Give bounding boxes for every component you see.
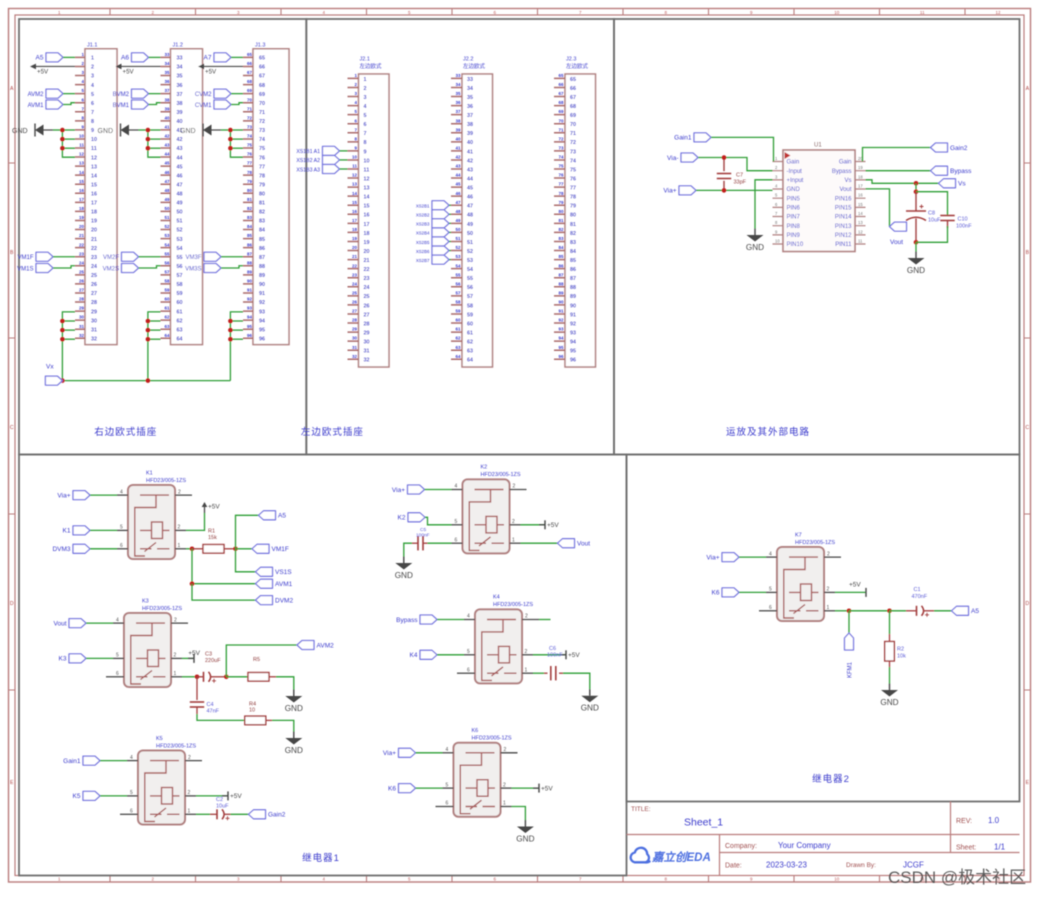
svg-text:6: 6 — [467, 667, 470, 673]
bottom pins junction wires — [146, 312, 161, 381]
net flag Via+ — [57, 491, 117, 500]
svg-text:4: 4 — [120, 489, 123, 495]
svg-text:+5V: +5V — [547, 522, 559, 529]
svg-text:Vout: Vout — [890, 239, 903, 246]
svg-text:VM1S: VM1S — [17, 266, 33, 272]
net flag CVM1 — [195, 100, 243, 109]
svg-text:Gain1: Gain1 — [674, 135, 692, 142]
svg-text:47nF: 47nF — [207, 709, 220, 715]
svg-text:C4: C4 — [207, 702, 214, 708]
svg-text:XS1B3 A3: XS1B3 A3 — [296, 167, 320, 173]
power +5V K6 — [512, 784, 554, 793]
svg-text:2: 2 — [827, 587, 830, 593]
svg-text:R5: R5 — [253, 657, 260, 663]
svg-text:2: 2 — [174, 653, 177, 659]
svg-text:2: 2 — [525, 614, 528, 620]
svg-text:6: 6 — [769, 605, 772, 611]
svg-text:+5V: +5V — [230, 793, 242, 800]
net flag Via+ — [392, 485, 452, 494]
svg-text:BVM1: BVM1 — [113, 103, 130, 109]
svg-text:GND: GND — [98, 128, 114, 135]
svg-text:11: 11 — [920, 10, 925, 15]
svg-text:GND: GND — [746, 243, 764, 252]
bottom pins junction wires — [228, 312, 243, 381]
svg-text:10k: 10k — [897, 654, 906, 660]
relay K3 — [106, 598, 188, 687]
wire pin1 K6 to GND — [512, 807, 526, 821]
capacitor C5 — [404, 527, 452, 557]
power +5V K1 — [186, 502, 220, 530]
connector J2.1 — [348, 57, 390, 368]
svg-text:B: B — [10, 250, 14, 256]
net flag Gain1 — [674, 133, 773, 162]
power +5V K4 — [533, 650, 580, 659]
svg-text:C2: C2 — [216, 797, 223, 803]
net flag XS2B2 — [416, 210, 451, 219]
svg-text:+5V: +5V — [541, 785, 553, 792]
net flag XS2B1 — [416, 201, 451, 210]
svg-text:1.0: 1.0 — [988, 816, 1000, 825]
net flag AVM2 — [28, 89, 75, 98]
svg-text:C10: C10 — [958, 217, 968, 223]
svg-text:10: 10 — [834, 877, 840, 882]
net flag Gain2 — [863, 143, 968, 162]
svg-text:A7: A7 — [204, 55, 212, 62]
capacitor C6 — [533, 646, 590, 689]
svg-text:1/1: 1/1 — [994, 843, 1006, 852]
svg-text:HFD23/005-1ZS: HFD23/005-1ZS — [146, 478, 186, 484]
net flag XS2B3 — [416, 219, 451, 228]
ground GND op-amp right — [907, 252, 925, 276]
svg-text:XS2B5: XS2B5 — [416, 240, 430, 245]
svg-text:Bypass: Bypass — [396, 617, 418, 624]
svg-text:4: 4 — [446, 747, 449, 753]
net flag K4 — [410, 650, 464, 659]
svg-text:Company:: Company: — [725, 843, 757, 850]
svg-text:GND: GND — [880, 698, 898, 707]
GND diode — [98, 124, 148, 137]
title block — [627, 802, 1020, 876]
svg-text:A6: A6 — [121, 55, 129, 62]
net flag XS2B6 — [416, 246, 451, 255]
connector J1.3 — [243, 42, 289, 344]
net flag Vout — [53, 619, 113, 628]
resistor R4 — [197, 702, 294, 732]
svg-text:Date:: Date: — [725, 863, 742, 870]
svg-text:2023-03-23: 2023-03-23 — [766, 861, 807, 870]
svg-text:6: 6 — [116, 671, 119, 677]
svg-text:5: 5 — [467, 649, 470, 655]
frame zone letters — [10, 86, 1030, 786]
svg-text:1: 1 — [188, 809, 191, 815]
net flag K6 — [712, 588, 766, 597]
section box: op-amp circuit — [614, 19, 1020, 455]
svg-text:2: 2 — [188, 755, 191, 761]
wire jog to +Input — [755, 180, 773, 191]
svg-text:4: 4 — [130, 755, 133, 761]
net flag XS1B1 — [296, 146, 347, 155]
net flag DVM3 — [52, 544, 117, 553]
svg-text:R2: R2 — [897, 647, 904, 653]
svg-text:470nF: 470nF — [912, 594, 928, 600]
svg-text:J2.3: J2.3 — [566, 57, 576, 63]
svg-text:GND: GND — [285, 704, 303, 713]
svg-text:5: 5 — [116, 653, 119, 659]
section box: right euro sockets — [19, 19, 306, 455]
svg-text:左边欧式: 左边欧式 — [360, 62, 383, 70]
svg-text:Bypass: Bypass — [950, 168, 972, 175]
svg-text:CVM2: CVM2 — [195, 92, 212, 98]
svg-text:2: 2 — [827, 551, 830, 557]
svg-text:5: 5 — [446, 782, 449, 788]
capacitor C1 — [906, 587, 934, 617]
svg-text:AVM2: AVM2 — [28, 92, 45, 98]
svg-text:Via+: Via+ — [706, 554, 719, 561]
net flag K5 — [73, 791, 127, 800]
net flag VM3S — [185, 264, 243, 273]
net flag Via+ — [663, 186, 772, 195]
svg-text:Vout: Vout — [53, 620, 66, 627]
svg-text:Via+: Via+ — [383, 750, 396, 757]
svg-text:HFD23/005-1ZS: HFD23/005-1ZS — [156, 743, 196, 749]
net flag XS1B3 — [296, 165, 347, 174]
svg-text:+5V: +5V — [205, 68, 217, 75]
net flag BVM1 — [113, 100, 161, 109]
svg-text:A5: A5 — [36, 55, 44, 62]
svg-text:5: 5 — [130, 790, 133, 796]
svg-text:E: E — [10, 780, 14, 786]
power +5V flag — [30, 64, 75, 76]
svg-text:Drawn By:: Drawn By: — [846, 862, 876, 869]
svg-text:HFD23/005-1ZS: HFD23/005-1ZS — [472, 736, 512, 742]
svg-text:C8: C8 — [928, 211, 935, 217]
power +5V flag — [198, 64, 243, 76]
svg-text:嘉立创EDA: 嘉立创EDA — [651, 850, 711, 864]
svg-text:2: 2 — [178, 525, 181, 531]
svg-text:Via+: Via+ — [57, 492, 70, 499]
capacitor C2 — [196, 797, 231, 820]
svg-text:HFD23/005-1ZS: HFD23/005-1ZS — [493, 602, 533, 608]
svg-text:左边欧式插座: 左边欧式插座 — [301, 426, 364, 438]
svg-text:E: E — [1026, 780, 1030, 786]
svg-text:+5V: +5V — [37, 68, 49, 75]
svg-text:Gain2: Gain2 — [950, 145, 968, 152]
svg-text:12: 12 — [995, 10, 1001, 15]
svg-text:XS2B6: XS2B6 — [416, 249, 430, 254]
svg-text:GND: GND — [907, 266, 925, 275]
svg-text:C6: C6 — [549, 646, 556, 652]
svg-text:A: A — [10, 86, 14, 92]
svg-text:AVM1: AVM1 — [275, 581, 293, 588]
wire stub pin2 K4 — [539, 619, 551, 621]
wire to GND — [915, 242, 917, 251]
net flag VM2S — [103, 264, 161, 273]
svg-text:XS1B1 A1: XS1B1 A1 — [296, 149, 320, 155]
svg-text:VM1F: VM1F — [17, 255, 33, 261]
GND diode — [12, 124, 62, 137]
resistor R1 — [186, 529, 238, 554]
net flag AVM2 — [226, 641, 334, 677]
svg-text:DVM3: DVM3 — [52, 546, 70, 553]
net flag VM1F — [236, 544, 289, 553]
svg-text:Via+: Via+ — [663, 188, 676, 195]
svg-text:4: 4 — [769, 551, 772, 557]
svg-text:2: 2 — [513, 484, 516, 490]
svg-text:HFD23/005-1ZS: HFD23/005-1ZS — [795, 540, 835, 546]
op-amp U1 — [773, 143, 866, 252]
svg-text:K6: K6 — [472, 728, 479, 734]
svg-text:10uF: 10uF — [216, 804, 229, 810]
connector J2.2 — [451, 57, 493, 368]
svg-text:K4: K4 — [493, 595, 500, 601]
svg-text:J1.1: J1.1 — [87, 42, 97, 48]
svg-text:VS1S: VS1S — [275, 569, 292, 576]
svg-text:继电器2: 继电器2 — [812, 773, 850, 785]
svg-text:B: B — [1026, 250, 1030, 256]
svg-text:+5V: +5V — [188, 650, 200, 657]
net flag A5 — [934, 606, 979, 615]
net flag Via+ — [706, 553, 766, 562]
svg-text:C: C — [1025, 425, 1029, 431]
ground GND R4 — [285, 732, 303, 756]
svg-text:K2: K2 — [481, 465, 488, 471]
svg-text:2: 2 — [174, 617, 177, 623]
relay K5 — [120, 736, 202, 825]
connector J1.1 — [75, 42, 117, 344]
svg-text:Sheet:: Sheet: — [956, 845, 976, 852]
svg-text:HFD23/005-1ZS: HFD23/005-1ZS — [481, 472, 521, 478]
svg-text:+5V: +5V — [849, 582, 861, 589]
relay K7 — [759, 532, 841, 621]
frame zone ticks (top/bottom) — [110, 9, 965, 883]
svg-text:C3: C3 — [205, 652, 212, 658]
svg-text:K3: K3 — [142, 598, 149, 604]
net flag A7 — [204, 53, 243, 62]
svg-text:33pF: 33pF — [734, 180, 747, 186]
svg-text:XS2B7: XS2B7 — [416, 258, 430, 263]
svg-text:VM3S: VM3S — [185, 266, 201, 272]
svg-text:XS2B4: XS2B4 — [416, 231, 430, 236]
svg-text:100nF: 100nF — [956, 224, 972, 230]
net flag BVM2 — [113, 89, 161, 98]
svg-text:6: 6 — [130, 809, 133, 815]
svg-text:J2.2: J2.2 — [463, 57, 473, 63]
resistor R5 — [226, 657, 293, 690]
svg-text:6: 6 — [446, 801, 449, 807]
net Vx bottom bus — [45, 364, 230, 386]
svg-text:KFM1: KFM1 — [848, 661, 854, 678]
net flag XS2B7 — [416, 255, 451, 264]
svg-text:6: 6 — [120, 543, 123, 549]
net flag A5 — [36, 53, 75, 62]
net flag Via+ — [383, 748, 443, 757]
svg-text:Gain2: Gain2 — [268, 812, 286, 819]
capacitor C3 — [182, 652, 229, 683]
net flag Gain2 — [231, 810, 286, 819]
net flag KFM1 vertical — [845, 611, 854, 678]
GND diode — [180, 124, 230, 137]
svg-text:D: D — [1025, 601, 1029, 607]
net flag Via- — [667, 153, 772, 171]
svg-text:K5: K5 — [73, 793, 81, 800]
JLCEDA logo — [631, 848, 711, 864]
svg-text:6: 6 — [455, 537, 458, 543]
power +5V K7 — [835, 582, 866, 597]
svg-text:C: C — [10, 425, 14, 431]
svg-text:GND: GND — [516, 835, 534, 844]
svg-text:5: 5 — [120, 525, 123, 531]
net flag VM1F — [17, 252, 75, 261]
net flag K1 — [63, 526, 117, 535]
net flag XS2B4 — [416, 228, 451, 237]
ground GND R5 — [285, 690, 303, 714]
svg-text:REV:: REV: — [956, 818, 972, 825]
svg-text:+5V: +5V — [568, 652, 580, 659]
svg-text:A: A — [1026, 86, 1030, 92]
net flag Bypass — [866, 166, 973, 175]
net flag CVM2 — [195, 89, 243, 98]
svg-text:VM3F: VM3F — [185, 255, 201, 261]
net flag A5 — [236, 511, 287, 549]
svg-text:左边欧式: 左边欧式 — [566, 62, 589, 70]
svg-text:2: 2 — [512, 519, 515, 525]
svg-text:2: 2 — [178, 489, 181, 495]
ground GND C5 — [395, 557, 413, 581]
section box: relays 2 — [627, 455, 1020, 802]
ground GND C6 — [581, 689, 599, 713]
svg-text:100nF: 100nF — [416, 533, 430, 539]
svg-text:10: 10 — [834, 10, 840, 15]
svg-text:J2.1: J2.1 — [360, 57, 370, 63]
svg-text:1: 1 — [178, 543, 181, 549]
GND pins junction wires — [228, 128, 243, 158]
svg-text:2: 2 — [503, 782, 506, 788]
svg-text:GND: GND — [581, 704, 599, 713]
svg-text:1: 1 — [525, 667, 528, 673]
svg-text:XS1B2 A2: XS1B2 A2 — [296, 158, 320, 164]
relay K1 — [117, 470, 192, 559]
svg-text:1: 1 — [512, 537, 515, 543]
net flag AVM1 — [28, 100, 75, 109]
svg-text:J1.2: J1.2 — [173, 42, 183, 48]
ground GND R2 — [880, 684, 898, 708]
resistor R2 — [885, 611, 906, 684]
svg-text:GND: GND — [12, 128, 28, 135]
svg-text:15k: 15k — [208, 535, 217, 541]
svg-text:CSDN @极术社区: CSDN @极术社区 — [888, 868, 1026, 887]
connector J1.2 — [161, 42, 203, 344]
svg-text:K4: K4 — [410, 652, 418, 659]
net flag K2 — [398, 513, 452, 525]
svg-text:J1.3: J1.3 — [255, 42, 265, 48]
svg-text:Vs: Vs — [958, 181, 966, 188]
svg-text:1: 1 — [503, 801, 506, 807]
svg-text:运放及其外部电路: 运放及其外部电路 — [726, 426, 810, 438]
ground GND op-amp left — [746, 229, 764, 253]
svg-text:4: 4 — [455, 484, 458, 490]
capacitor C4 — [190, 677, 220, 715]
power +5V flag — [116, 64, 161, 76]
svg-text:Vout: Vout — [577, 541, 590, 548]
capacitor C7 — [717, 155, 747, 193]
svg-text:Via+: Via+ — [392, 487, 405, 494]
svg-text:GND: GND — [395, 571, 413, 580]
svg-text:VM1F: VM1F — [272, 546, 289, 553]
svg-text:GND: GND — [180, 128, 196, 135]
svg-text:K5: K5 — [156, 736, 163, 742]
net flag VM3F — [185, 252, 243, 261]
svg-text:K2: K2 — [398, 515, 406, 522]
svg-text:10: 10 — [249, 708, 255, 714]
relay K6 — [436, 728, 518, 817]
section box: left euro sockets — [306, 19, 614, 455]
wire pin1 K7 — [835, 609, 906, 614]
svg-text:继电器1: 继电器1 — [302, 852, 340, 864]
connector J2.3 — [554, 57, 596, 368]
svg-text:2: 2 — [525, 649, 528, 655]
svg-text:4: 4 — [467, 614, 470, 620]
bottom pins junction wires — [60, 312, 75, 381]
svg-text:C7: C7 — [736, 173, 743, 179]
svg-text:5: 5 — [455, 519, 458, 525]
svg-text:K3: K3 — [59, 656, 67, 663]
svg-text:1: 1 — [174, 671, 177, 677]
GND pins junction wires — [146, 128, 161, 158]
svg-text:2: 2 — [188, 790, 191, 796]
svg-text:2: 2 — [504, 747, 507, 753]
svg-text:右边欧式插座: 右边欧式插座 — [94, 426, 157, 438]
svg-text:K1: K1 — [63, 528, 71, 535]
svg-text:10uF: 10uF — [928, 218, 941, 224]
svg-text:K1: K1 — [146, 470, 153, 476]
svg-text:A5: A5 — [971, 608, 979, 615]
net flag VS1S — [236, 549, 293, 577]
ground GND K6 — [516, 820, 534, 844]
wire to GND from +input rail — [754, 190, 756, 228]
section box: relays 1 — [19, 455, 627, 876]
GND pins junction wires — [60, 128, 75, 158]
svg-text:AVM2: AVM2 — [317, 642, 335, 649]
svg-text:GND: GND — [285, 746, 303, 755]
net flag K3 — [59, 654, 113, 663]
svg-text:K6: K6 — [712, 590, 720, 597]
capacitor C8 — [906, 181, 941, 245]
svg-text:1: 1 — [827, 605, 830, 611]
relay K4 — [457, 595, 539, 684]
svg-text:220uF: 220uF — [205, 658, 221, 664]
power +5V K3 — [182, 650, 201, 663]
svg-text:CVM1: CVM1 — [195, 103, 212, 109]
svg-text:TITLE:: TITLE: — [631, 806, 651, 813]
svg-text:K6: K6 — [388, 785, 396, 792]
svg-text:Gain1: Gain1 — [63, 758, 81, 765]
svg-text:R1: R1 — [208, 529, 215, 535]
capacitor C10 — [916, 192, 972, 243]
svg-text:K7: K7 — [795, 532, 802, 538]
svg-text:Sheet_1: Sheet_1 — [684, 817, 723, 829]
net flag K6 — [388, 784, 442, 793]
frame zone ticks (sides) — [9, 163, 1031, 690]
svg-text:左边欧式: 左边欧式 — [463, 62, 486, 70]
svg-text:BVM2: BVM2 — [113, 92, 130, 98]
svg-text:XS2B1: XS2B1 — [416, 204, 430, 209]
svg-text:4: 4 — [116, 617, 119, 623]
svg-text:+5V: +5V — [208, 504, 220, 511]
net flag Gain1 — [63, 756, 127, 765]
net flag DVM2 — [192, 584, 293, 605]
net flag VM2F — [103, 252, 161, 261]
svg-text:U1: U1 — [814, 143, 822, 149]
